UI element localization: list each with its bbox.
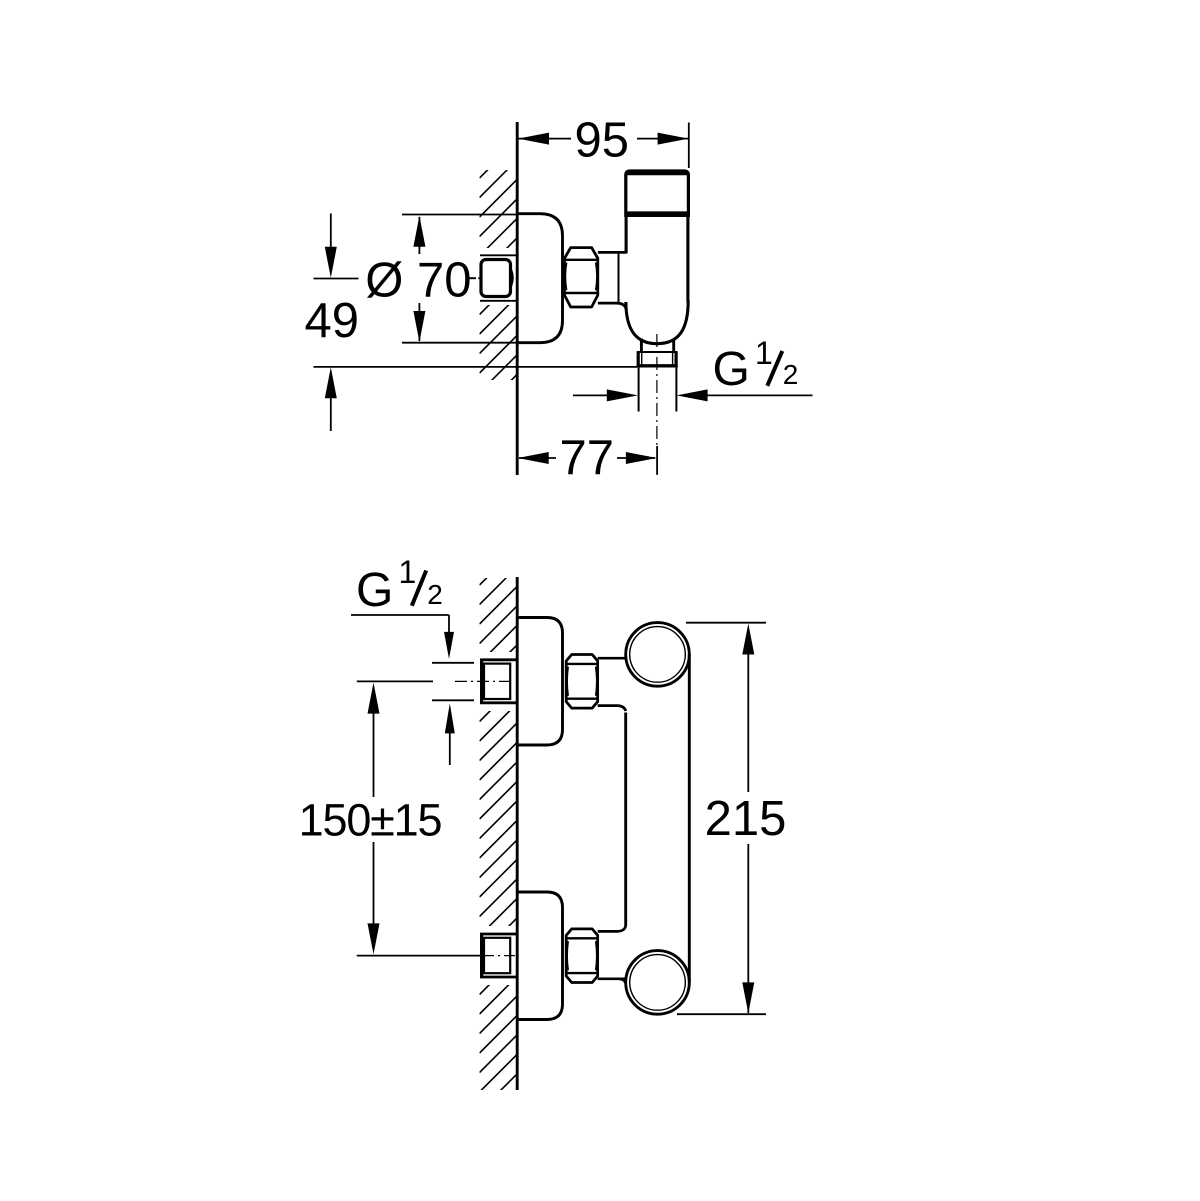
G1/2 inlet fitting in wall (top view) bbox=[480, 254, 516, 256]
dimension diameter 70 extension lines bbox=[402, 214, 517, 216]
outlet nut (top view) bbox=[637, 351, 677, 353]
dimension G1/2 (top view) bbox=[573, 394, 609, 396]
svg-text:2: 2 bbox=[427, 579, 443, 610]
hatch clearance around inlets (front view) bbox=[478, 652, 517, 711]
escutcheon flange (top view, side profile) bbox=[517, 214, 563, 343]
lower G1/2 inlet fitting (front view) bbox=[480, 933, 516, 936]
hatch clearance around inlet (top view) bbox=[478, 248, 517, 305]
svg-text:G: G bbox=[713, 343, 750, 396]
lower collar (front view) bbox=[599, 931, 625, 978]
upper union hex nut (front view) bbox=[566, 655, 598, 709]
wall line (top view) bbox=[516, 122, 519, 475]
dimension 150 plus-minus 15 extension lines bbox=[357, 680, 433, 682]
upper G1/2 inlet fitting (front view) bbox=[480, 658, 516, 661]
dimension 95 extension line bbox=[688, 123, 690, 169]
svg-text:1: 1 bbox=[399, 554, 417, 590]
inlet centre line bbox=[455, 680, 515, 682]
dimension 215 extension lines bbox=[686, 622, 766, 624]
outlet reference line (49 datum) bbox=[314, 366, 638, 368]
dimension 215 bbox=[742, 624, 754, 655]
svg-text:1: 1 bbox=[755, 335, 773, 371]
inlet thread reference lines bbox=[432, 662, 474, 664]
dimension 150 plus-minus 15 bbox=[368, 683, 380, 714]
dimension 77 bbox=[519, 457, 556, 459]
connector collar (top view) bbox=[599, 252, 625, 303]
outlet centre line (top view) bbox=[656, 334, 658, 446]
wall hatching (top view) bbox=[480, 141, 517, 412]
inlet centre line dash (top view) bbox=[467, 277, 476, 279]
inlet centre line bbox=[482, 955, 515, 957]
svg-text:49: 49 bbox=[304, 294, 359, 348]
svg-text:150±15: 150±15 bbox=[299, 794, 442, 845]
outlet pipe stub (top view) bbox=[640, 339, 643, 353]
upper escutcheon flange (front view) bbox=[517, 618, 563, 746]
leader G1/2 (front view) bbox=[351, 614, 449, 616]
svg-text:95: 95 bbox=[575, 114, 630, 168]
outlet thread G1/2 (top view) bbox=[638, 367, 640, 411]
push button cap (top view) bbox=[626, 171, 689, 215]
svg-text:77: 77 bbox=[560, 431, 615, 485]
union hex nut (top view) bbox=[564, 248, 598, 307]
wall line (front view) bbox=[516, 577, 519, 1090]
svg-text:2: 2 bbox=[783, 359, 799, 390]
svg-text:215: 215 bbox=[705, 792, 787, 846]
valve body (top view) bbox=[625, 215, 628, 254]
body bar right edge (front view) bbox=[688, 654, 691, 982]
upper body circle (front view) bbox=[626, 623, 690, 687]
wall hatching (front view) bbox=[480, 548, 517, 1112]
lower body circle (front view) bbox=[626, 951, 690, 1015]
dimension diameter 70 bbox=[418, 217, 420, 254]
body bar left edge (front view) bbox=[624, 713, 627, 927]
dimension 95 bbox=[518, 138, 571, 140]
dimension 49 bbox=[330, 214, 332, 249]
lower escutcheon flange (front view) bbox=[517, 892, 563, 1020]
upper collar (front view) bbox=[599, 658, 625, 705]
svg-text:Ø 70: Ø 70 bbox=[365, 254, 471, 308]
svg-text:G: G bbox=[356, 564, 393, 617]
lower union hex nut (front view) bbox=[566, 929, 598, 983]
